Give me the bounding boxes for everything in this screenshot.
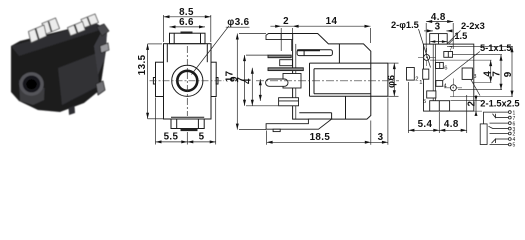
svg-text:2-1.5x2.5: 2-1.5x2.5	[480, 98, 519, 108]
svg-text:φ3.6: φ3.6	[227, 17, 249, 28]
pad 7	[444, 52, 453, 58]
dimension 13.5	[147, 44, 149, 119]
side pin 1 bend tick	[280, 34, 282, 40]
svg-text:6.6: 6.6	[179, 17, 194, 28]
footprint inner wall left	[432, 44, 434, 111]
svg-text:14: 14	[326, 16, 338, 27]
photo terminal front-right slit	[75, 25, 78, 34]
svg-text:5.4: 5.4	[418, 119, 433, 130]
photo pin right-top	[97, 24, 109, 36]
photo barrel tube	[19, 80, 45, 105]
dimension 7	[251, 68, 253, 106]
side body outline	[293, 34, 371, 120]
footprint row centerline 1	[418, 56, 436, 58]
side divider top	[338, 44, 340, 63]
schematic wire pin 5	[490, 144, 509, 146]
pad 1	[423, 69, 429, 79]
svg-text:φ6: φ6	[387, 75, 398, 88]
side divider bottom	[345, 96, 347, 119]
svg-text:2: 2	[415, 77, 418, 83]
front left ear	[156, 62, 164, 96]
side bore outer bottom	[310, 95, 371, 97]
photo barrel mid	[23, 76, 41, 93]
pad 4	[436, 81, 443, 87]
front left lug	[153, 78, 155, 85]
dimension 5.4 and 4.8 bottom	[407, 82, 409, 133]
hole 2	[450, 85, 456, 91]
front horizontal centerline	[150, 80, 225, 82]
photo terminal front-left	[29, 25, 47, 43]
dimension 3 top	[424, 30, 433, 32]
schematic wire pin 6	[490, 122, 509, 124]
footprint view	[407, 34, 474, 112]
side center pin	[266, 79, 288, 86]
dimension 9	[244, 55, 246, 106]
side centerline	[256, 80, 399, 82]
svg-text:5: 5	[199, 132, 205, 143]
dimension 7 right	[453, 54, 502, 56]
photo body main	[11, 23, 107, 113]
side lower slot line	[299, 112, 331, 114]
schematic wire pin 1	[484, 112, 509, 124]
side bore left cap	[309, 63, 311, 96]
front tab inner left	[173, 33, 175, 44]
svg-text:2-φ1.5: 2-φ1.5	[391, 20, 419, 30]
schematic wire pin 3	[493, 128, 508, 130]
svg-text:5: 5	[513, 143, 516, 149]
footprint outline	[424, 44, 474, 111]
side upper slot thick edge	[297, 49, 320, 51]
dimension 3 line in pads	[430, 41, 447, 43]
svg-text:5: 5	[423, 99, 426, 105]
svg-text:4: 4	[242, 78, 253, 84]
front tab slot mark	[181, 32, 193, 34]
svg-text:7: 7	[449, 47, 452, 53]
front inner ring	[177, 71, 197, 91]
dimension phi3.6 leader	[192, 26, 230, 75]
pad 5 big	[430, 101, 450, 111]
svg-text:7: 7	[492, 71, 503, 77]
svg-text:13.5: 13.5	[137, 54, 148, 75]
front tab inner right	[200, 33, 202, 44]
photo foot bottom	[69, 106, 76, 116]
svg-text:18.5: 18.5	[310, 132, 331, 143]
footprint top pads 2x3	[430, 34, 448, 45]
front right lug	[216, 78, 218, 85]
side pin 1 top	[266, 34, 293, 40]
schematic switch arm 3	[489, 126, 494, 128]
svg-text:4.8: 4.8	[444, 119, 459, 130]
schematic sleeve	[480, 124, 487, 145]
front base inner left	[176, 119, 178, 129]
photo pin bottom-right	[96, 81, 105, 95]
footprint row centerline 2	[444, 87, 463, 89]
dimension phi6	[389, 62, 399, 64]
photo right bottom facet	[58, 53, 99, 105]
schematic switch arm 7	[493, 114, 496, 118]
schematic wire pin 7	[496, 117, 509, 119]
photo terminal front-right	[68, 22, 86, 36]
svg-text:2: 2	[466, 101, 477, 107]
front view	[153, 32, 218, 132]
dimension 4.8 top	[426, 21, 453, 23]
side pin 3	[268, 68, 303, 71]
svg-text:3: 3	[378, 132, 384, 143]
side pin 6 notch	[273, 129, 280, 131]
pad 6	[436, 63, 444, 69]
svg-text:5.5: 5.5	[164, 132, 179, 143]
front base	[171, 119, 204, 129]
side bore inner bottom	[314, 93, 371, 95]
side bore inner top	[314, 68, 371, 70]
photo terminal back-left	[42, 18, 60, 34]
side pin 6 bottom lead	[266, 119, 332, 129]
svg-text:1: 1	[419, 80, 422, 86]
svg-text:6: 6	[444, 66, 447, 72]
side center pin box	[283, 74, 301, 89]
dimension 17	[236, 34, 238, 130]
dimension 3 bottom	[371, 141, 388, 143]
side pin 2	[268, 55, 291, 58]
side upper slot tick	[303, 50, 305, 56]
front right ear	[211, 62, 216, 96]
front inner wall right	[206, 44, 208, 63]
schematic wire pin 4	[496, 138, 509, 140]
front top tab	[170, 33, 206, 44]
dimension 4	[259, 79, 261, 101]
dimension 6.6	[170, 26, 206, 28]
schematic switch arm 4	[492, 139, 496, 143]
photo barrel hole	[26, 79, 37, 89]
photo pin right	[100, 43, 109, 53]
svg-text:2-2x3: 2-2x3	[461, 21, 485, 31]
dimension 9 right	[447, 45, 513, 47]
photo right face	[94, 29, 107, 75]
dimension 2 right	[451, 100, 483, 102]
svg-text:3: 3	[473, 74, 476, 80]
pad 5 small	[427, 91, 436, 98]
svg-text:2: 2	[283, 16, 289, 27]
schematic	[480, 110, 515, 148]
side view	[293, 34, 388, 120]
svg-text:1.5: 1.5	[454, 31, 467, 41]
front inner wall left	[166, 44, 168, 63]
front body outline	[164, 44, 212, 119]
schematic pin numbers	[513, 110, 516, 148]
pad 3	[462, 68, 472, 79]
front base inner right	[197, 119, 199, 129]
pad 2	[407, 68, 415, 81]
side barrel	[371, 63, 388, 96]
photo top face	[11, 23, 103, 57]
side bore outer top	[310, 62, 371, 64]
photo terminal back-left slit	[49, 22, 52, 32]
schematic wire pin 2	[490, 133, 509, 135]
svg-text:3: 3	[435, 21, 441, 32]
dimension 5.5 and 5	[155, 98, 157, 145]
side lower slot end	[331, 113, 333, 119]
dimension 18.5	[267, 141, 371, 143]
side pin 5	[279, 98, 299, 106]
side inner wall	[295, 44, 297, 119]
front outer circle	[172, 65, 203, 96]
side pin 5 line	[279, 100, 299, 102]
hole 1	[424, 54, 430, 60]
schematic terminal circles	[508, 111, 511, 114]
dimension 4 right	[430, 59, 492, 61]
side bore inner cap	[313, 69, 315, 94]
front base nub	[181, 129, 198, 132]
side upper slot	[297, 50, 332, 56]
front vertical centerline	[186, 46, 188, 116]
photo barrel outer	[19, 72, 43, 96]
front base top line	[171, 116, 204, 118]
dimension 14	[293, 25, 371, 27]
photo terminal back-right	[81, 14, 98, 28]
side pin box	[280, 60, 293, 66]
dimension 8.5	[164, 16, 211, 18]
dimension 2 top	[270, 25, 292, 27]
photo terminal front-left slit	[36, 29, 39, 40]
svg-text:9: 9	[503, 71, 514, 77]
photo terminal back-right slit	[88, 18, 91, 26]
svg-text:5-1x1.5: 5-1x1.5	[480, 43, 512, 53]
